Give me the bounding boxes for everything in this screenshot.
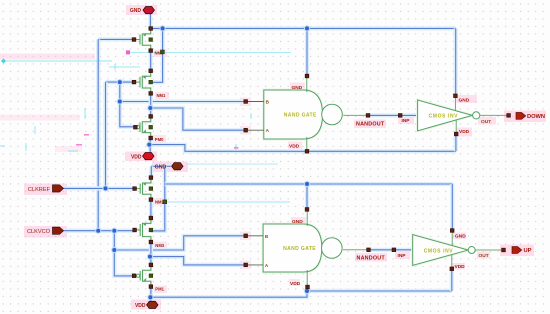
wire NM1 source to PM0 drain (149, 93, 153, 116)
input pin CLKVCO (27, 227, 64, 235)
wire inverter U3 VDD drop (454, 134, 458, 151)
wire GND to NM0 drain (148, 13, 152, 28)
pin GND of U2 (305, 208, 309, 212)
svg-text:CLKVCO: CLKVCO (27, 229, 51, 235)
transistor NM1 (132, 69, 152, 95)
junction (147, 294, 153, 300)
wire VDD rail top (149, 145, 456, 152)
wire PM0 source to VDD (148, 138, 152, 153)
tie corner square (161, 50, 165, 54)
svg-text:OUT: OUT (481, 119, 491, 125)
svg-text:VDD: VDD (135, 303, 146, 309)
highlight wire (126, 50, 291, 54)
junction (304, 288, 310, 294)
pin NANDOUT wire square bottom (367, 248, 371, 252)
NAND gate U2 (244, 209, 342, 287)
wire NM3 source to PM1 drain (149, 242, 153, 265)
highlight wire 3 (186, 163, 278, 165)
wire U2 output stub (343, 249, 369, 251)
transistor NM3 (133, 216, 153, 244)
svg-text:CLKREF: CLKREF (28, 187, 51, 193)
wire GND rail top (151, 26, 456, 30)
wire node to NAND U2 input A (150, 257, 246, 265)
svg-text:CMOS INV: CMOS INV (424, 248, 454, 254)
wire NANDOUT bottom (369, 248, 394, 252)
svg-text:VDD: VDD (290, 281, 301, 287)
svg-text:NAND GATE: NAND GATE (284, 113, 317, 119)
pin GND of U4 (450, 229, 454, 233)
wire GND rail bottom (165, 182, 453, 186)
pin OUT wire end U4 (502, 248, 506, 252)
wire U1 output stub (343, 114, 368, 116)
svg-text:GND: GND (292, 219, 303, 225)
NAND gate U1 (244, 76, 342, 151)
svg-text:VDD: VDD (289, 144, 300, 150)
wire to NAND U2 input B (114, 236, 245, 250)
ground GND mid (155, 163, 183, 171)
wire inverter U4 output (475, 249, 503, 251)
junction (146, 142, 152, 148)
wire bulk tie NM3 (151, 166, 165, 231)
wire NM0 gate (98, 37, 134, 41)
wire NANDOUT top (368, 113, 400, 117)
wire GND2 stub (151, 164, 170, 168)
junction (95, 228, 101, 234)
highlight wire 2 (166, 201, 290, 203)
wire to inverter U4 input (394, 248, 413, 252)
wire NM0 source to NM1 drain (149, 51, 153, 71)
ground GND top (130, 7, 155, 15)
junction (102, 185, 108, 191)
input pin CLKREF (28, 185, 64, 193)
highlight net marker (1, 59, 112, 64)
pin INP of U4 (392, 248, 396, 252)
junction (117, 79, 123, 85)
svg-text:VDD: VDD (131, 154, 142, 160)
wire to NAND U1 input B (120, 99, 246, 103)
inverter U3 (418, 100, 480, 131)
junction (111, 247, 117, 253)
junction (147, 254, 153, 260)
wire PM0 gate branch (120, 82, 136, 127)
pin INP of U3 (398, 114, 402, 118)
wire NM1 gate (106, 80, 135, 84)
wire CLKREF riser (103, 82, 107, 188)
wire CLKVCO riser (96, 39, 100, 230)
junction (111, 228, 117, 234)
wire to inverter U4 GND pin (450, 184, 454, 231)
svg-text:PM1: PM1 (155, 287, 164, 292)
wire inverter U3 output (480, 114, 509, 116)
svg-text:GND: GND (130, 8, 142, 14)
pin VDD of U2 (306, 285, 310, 289)
junction (304, 25, 310, 31)
svg-text:NM3: NM3 (155, 243, 165, 248)
svg-text:GND: GND (155, 165, 167, 171)
power VDD bottom (135, 301, 158, 309)
pin GND of U1 (305, 74, 309, 78)
svg-text:CMOS INV: CMOS INV (429, 114, 459, 120)
svg-text:NANDOUT: NANDOUT (357, 255, 386, 261)
pin GND of U3 (454, 94, 458, 98)
junction (117, 98, 123, 104)
wire to inverter U3 input (400, 113, 417, 117)
wire CLKVCO (64, 229, 135, 233)
wire to NAND U1 GND pin (305, 28, 309, 76)
transistor NM0 (132, 27, 152, 53)
wire node to NAND U1 input A (150, 108, 245, 130)
wire GND2 to NM2 drain (149, 166, 153, 177)
svg-text:INP: INP (402, 118, 411, 124)
transistor PM0 (134, 115, 153, 140)
junction (304, 181, 310, 187)
transistor NM2 (133, 176, 153, 202)
wire PM1 gate branch (114, 231, 134, 276)
svg-text:DOWN: DOWN (527, 114, 545, 120)
wire bulk tie NM1 (151, 28, 163, 82)
junction (147, 105, 153, 111)
svg-text:GND: GND (455, 234, 466, 240)
junction (160, 25, 166, 31)
svg-text:NM1: NM1 (157, 93, 167, 98)
pin VDD of U3 (454, 132, 458, 136)
svg-text:GND: GND (292, 85, 303, 91)
svg-text:OUT: OUT (479, 253, 489, 259)
svg-text:NAND GATE: NAND GATE (283, 246, 316, 252)
svg-text:VDD: VDD (459, 129, 470, 135)
svg-text:NANDOUT: NANDOUT (356, 122, 385, 128)
svg-text:VDD: VDD (455, 264, 466, 270)
svg-text:INP: INP (398, 253, 407, 259)
svg-text:PM0: PM0 (155, 137, 164, 142)
wire VDD rail bottom (150, 291, 451, 297)
output pin DOWN (516, 113, 545, 121)
wire to NAND U2 GND pin (305, 184, 309, 209)
wire PM1 source to VDD (149, 287, 153, 302)
pin VDD of U4 (450, 267, 454, 271)
transistor PM1 (132, 263, 152, 288)
power VDD mid (131, 153, 154, 161)
wire CLKREF (64, 186, 135, 190)
svg-text:GND: GND (459, 97, 470, 103)
svg-text:UP: UP (524, 248, 532, 254)
output pin UP (512, 247, 532, 255)
wire NAND U2 VDD stub (305, 287, 309, 291)
inverter U4 (413, 235, 476, 266)
pin OUT wire end U3 (507, 114, 511, 118)
wire NM2 source to NM3 drain (149, 200, 153, 218)
tie corner square 2 (163, 200, 167, 204)
pin VDD of U1 (305, 150, 309, 154)
wire inverter U4 VDD drop (450, 269, 454, 291)
pin NANDOUT wire square top (366, 114, 370, 118)
wire to inverter U3 GND pin (454, 28, 458, 95)
